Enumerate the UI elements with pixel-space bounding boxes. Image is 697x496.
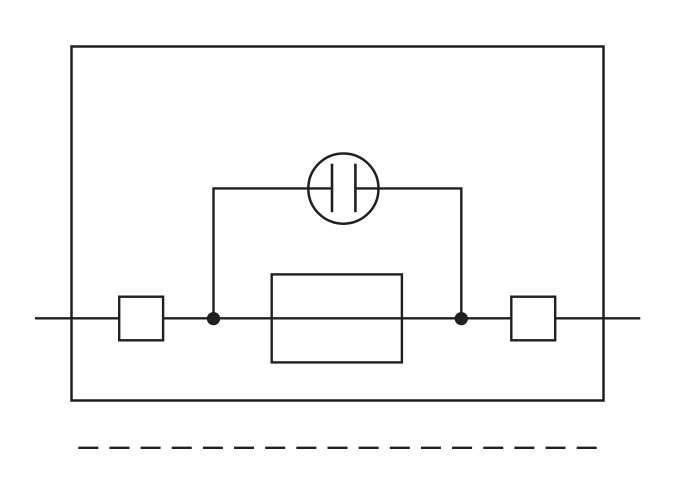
dashed mounting-rail separator line (78, 447, 597, 449)
node (left junction dot) (207, 312, 220, 325)
wire (left indicator branch: up from left node, across to lamp) (214, 188, 332, 318)
wire (right indicator branch: from lamp across and down to right node) (356, 188, 461, 318)
wire (main through conductor, left lead to left clamp) (35, 317, 119, 319)
wire (left clamp to fuse, through fuse body, to right clamp) (163, 317, 511, 319)
right clamp contact (square) (511, 297, 555, 341)
node (right junction dot) (455, 312, 468, 325)
left clamp contact (square) (119, 297, 163, 341)
neon lamp left electrode plate (331, 164, 334, 213)
fuse element (rectangle on conductor) (272, 274, 402, 362)
wire (right clamp to right lead exit) (555, 317, 640, 319)
terminal block housing outline (72, 47, 604, 401)
neon lamp right electrode plate (354, 164, 357, 213)
neon lamp indicator (circle envelope) (308, 154, 378, 224)
